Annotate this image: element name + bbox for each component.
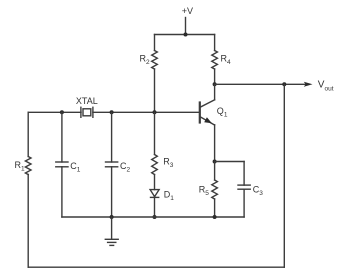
svg-text:R2: R2: [140, 54, 151, 67]
wire C1 bottom lead: [61, 167, 63, 217]
wire emitter to C3 top: [215, 161, 245, 163]
transistor Q1: [200, 100, 228, 125]
wire R1 top lead: [27, 112, 29, 156]
wire R1 bottom lead: [27, 175, 29, 268]
wire C3 top lead: [243, 162, 245, 186]
svg-text:C3: C3: [253, 185, 263, 198]
output arrowhead: [304, 82, 313, 87]
wire output line: [215, 83, 305, 85]
junction ground node: [110, 215, 114, 219]
wire C2 bottom lead: [111, 167, 113, 217]
resistor R3: [152, 155, 174, 175]
resistor R2: [140, 51, 158, 70]
svg-text:R1: R1: [15, 160, 26, 173]
svg-text:D1: D1: [164, 189, 175, 202]
capacitor C3: [238, 185, 263, 198]
wire C3 bottom lead: [243, 189, 245, 217]
junction D1 bottom node: [153, 215, 157, 219]
wire R4 to collector node: [214, 69, 216, 84]
junction emitter node: [213, 160, 217, 164]
svg-text:R5: R5: [199, 185, 210, 198]
capacitor C1: [56, 161, 81, 174]
wire feedback bottom: [28, 266, 284, 268]
svg-text:R3: R3: [163, 156, 174, 169]
wire top rail: [155, 34, 215, 36]
svg-text:XTAL: XTAL: [76, 96, 98, 106]
junction C1 top node: [60, 110, 64, 114]
svg-text:Q1: Q1: [217, 106, 228, 119]
wire feedback right side: [283, 84, 285, 267]
wire ground rail: [62, 216, 244, 218]
wire base net left of crystal: [28, 111, 81, 113]
wire collector lead: [214, 84, 216, 100]
wire +V stem: [185, 18, 187, 35]
capacitor C2: [106, 161, 131, 174]
wire R2 to base net: [154, 69, 156, 112]
junction top rail node: [184, 33, 188, 37]
wire R4 top lead: [214, 35, 216, 51]
crystal XTAL: [76, 96, 98, 117]
diode D1: [150, 189, 174, 202]
junction C2 top node: [110, 110, 114, 114]
wire D1 bottom lead: [154, 197, 156, 217]
wire R3 top lead: [154, 112, 156, 154]
wire R3 to D1: [154, 175, 156, 190]
wire emitter lead: [214, 125, 216, 162]
resistor R1: [15, 157, 32, 175]
svg-text:C2: C2: [120, 161, 131, 174]
resistor R5: [199, 180, 218, 199]
junction R2/R3 base node: [153, 110, 157, 114]
resistor R4: [212, 51, 231, 70]
wire R2 top lead: [154, 35, 156, 51]
svg-text:Vout: Vout: [318, 79, 334, 92]
svg-text:R4: R4: [221, 54, 232, 67]
wire C2 top lead: [111, 112, 113, 162]
junction collector/output node: [213, 82, 217, 86]
ground: [105, 217, 118, 245]
wire C1 top lead: [61, 112, 63, 162]
wire R5 top lead: [214, 162, 216, 181]
wire R5 bottom lead: [214, 199, 216, 217]
svg-text:+V: +V: [182, 6, 193, 16]
wire base net right of crystal: [93, 111, 199, 113]
junction R5 bottom node: [213, 215, 217, 219]
junction output/feedback node: [282, 82, 286, 86]
svg-text:C1: C1: [70, 161, 81, 174]
